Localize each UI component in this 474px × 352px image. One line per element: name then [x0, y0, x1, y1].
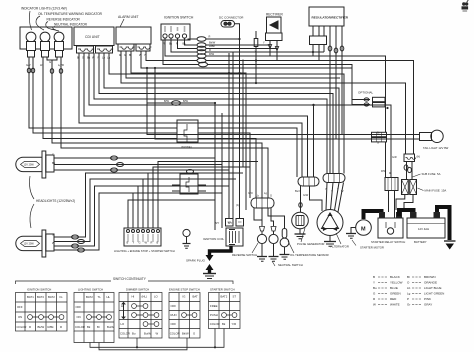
- svg-text:IG: IG: [183, 295, 186, 299]
- tail light feed wires: [147, 68, 420, 139]
- svg-text:OIL TEMPERATURE SENSOR: OIL TEMPERATURE SENSOR: [290, 253, 329, 257]
- svg-text:W: W: [145, 241, 148, 245]
- svg-text:TL: TL: [98, 295, 102, 299]
- svg-text:OFF: OFF: [17, 305, 23, 309]
- svg-text:Lg: Lg: [107, 56, 110, 60]
- svg-text:NEUTRAL INDICATOR: NEUTRAL INDICATOR: [54, 23, 88, 27]
- headlight 1 label: [24, 164, 35, 167]
- svg-text:Lg: Lg: [264, 191, 267, 195]
- CDI unit: [74, 27, 114, 53]
- svg-text:INDICATOR LIGHTS (12V3.4W): INDICATOR LIGHTS (12V3.4W): [21, 7, 67, 11]
- svg-text:OFF: OFF: [171, 304, 177, 308]
- rectifier label: [266, 13, 284, 17]
- svg-text:SWITCH CONTINUITY: SWITCH CONTINUITY: [113, 277, 147, 281]
- svg-text:W: W: [341, 189, 344, 193]
- starter relay switch: [378, 213, 403, 239]
- svg-text:Y: Y: [133, 241, 135, 245]
- svg-text:R: R: [373, 297, 376, 301]
- alarm unit: [116, 27, 151, 51]
- svg-text:DIMMER SWITCH: DIMMER SWITCH: [126, 288, 149, 292]
- svg-text:STARTER SWITCH: STARTER SWITCH: [210, 288, 235, 292]
- fuse connector block: [404, 154, 416, 162]
- regulator rectifier: [309, 7, 344, 45]
- svg-text:REGULATOR/RECTIFIER: REGULATOR/RECTIFIER: [312, 16, 349, 20]
- svg-text:OFF: OFF: [171, 322, 177, 326]
- 4P connector: [251, 198, 274, 208]
- svg-text:R: R: [60, 325, 62, 329]
- svg-text:R: R: [119, 53, 121, 57]
- svg-text:B/Y: B/Y: [215, 221, 219, 225]
- svg-text:Bk/W: Bk/W: [38, 325, 45, 329]
- svg-text:GRAY: GRAY: [424, 303, 432, 307]
- svg-text:BLUE: BLUE: [390, 286, 398, 290]
- condenser: [183, 229, 191, 248]
- oil temperature sensor label: [290, 253, 329, 257]
- svg-text:12V 25W: 12V 25W: [24, 243, 35, 246]
- svg-text:PINK: PINK: [424, 297, 431, 301]
- svg-text:W: W: [373, 303, 376, 307]
- engine stop switch table text: [170, 295, 198, 336]
- svg-text:G/O: G/O: [248, 191, 253, 195]
- oil temperature sensor: [280, 229, 290, 260]
- svg-text:ON: ON: [77, 315, 81, 319]
- svg-text:SUB FUSE 5A: SUB FUSE 5A: [422, 172, 441, 176]
- svg-text:COLOR: COLOR: [120, 332, 130, 336]
- indicator wire bullet connectors: [27, 68, 62, 73]
- pulse generator: [292, 212, 309, 239]
- svg-text:BAT: BAT: [193, 295, 199, 299]
- svg-text:Lb: Lb: [256, 194, 259, 198]
- lighting switch table text: [75, 295, 114, 329]
- svg-text:Y: Y: [97, 56, 99, 60]
- svg-text:IGNITION COIL: IGNITION COIL: [203, 237, 225, 241]
- optional connector label: [358, 91, 374, 95]
- top right connector: [462, 0, 469, 12]
- svg-text:DC CONNECTOR: DC CONNECTOR: [219, 16, 244, 20]
- main fuse leader: [418, 188, 424, 191]
- svg-text:HI: HI: [121, 304, 124, 308]
- battery ground cable: [437, 207, 450, 240]
- svg-text:REVERSE SWITCH: REVERSE SWITCH: [232, 253, 257, 257]
- svg-text:12V 25W: 12V 25W: [24, 164, 35, 167]
- pulse generator leader: [301, 228, 305, 242]
- svg-text:BATTERY: BATTERY: [414, 240, 427, 244]
- svg-text:NEUTRAL SWITCH: NEUTRAL SWITCH: [278, 263, 303, 267]
- svg-text:MAIN FUSE 15A: MAIN FUSE 15A: [425, 189, 447, 193]
- svg-text:FREE: FREE: [210, 304, 218, 308]
- svg-text:Y: Y: [373, 281, 375, 285]
- svg-text:ALARM UNIT: ALARM UNIT: [118, 15, 139, 19]
- svg-text:BAT1: BAT1: [27, 295, 34, 299]
- svg-text:G: G: [373, 292, 376, 296]
- regulator rectifier wires: [313, 44, 344, 174]
- svg-text:GREEN: GREEN: [390, 292, 401, 296]
- svg-text:G/W: G/W: [303, 193, 309, 197]
- svg-text:R/W: R/W: [209, 52, 215, 56]
- starter motor label: [361, 227, 366, 233]
- spark plug cable: [210, 246, 232, 256]
- indicator bulb wires: [29, 57, 268, 198]
- svg-text:G: G: [49, 60, 51, 64]
- tail wire connector blocks: [372, 132, 387, 142]
- svg-text:Lb: Lb: [407, 286, 411, 290]
- headlights label: [36, 199, 75, 203]
- alarm unit label: [118, 15, 139, 19]
- starter motor cable: [364, 211, 382, 219]
- svg-text:LIGHTING + ENGINE STOP + START: LIGHTING + ENGINE STOP + STARTER SWITCH: [114, 249, 175, 253]
- svg-text:Bu/W: Bu/W: [144, 332, 151, 336]
- svg-text:WHITE: WHITE: [390, 303, 400, 307]
- ignition switch label: [164, 16, 194, 20]
- svg-text:G: G: [139, 241, 141, 245]
- fuse out wires: [396, 195, 413, 211]
- headlight 2: [16, 230, 54, 257]
- svg-text:Y: Y: [263, 41, 265, 45]
- svg-text:Bu/W: Bu/W: [107, 325, 114, 329]
- svg-text:RED: RED: [390, 297, 397, 301]
- svg-text:RUN: RUN: [171, 313, 177, 317]
- svg-text:W: W: [92, 56, 95, 60]
- svg-text:B: B: [129, 53, 131, 57]
- fuse connector label: [417, 155, 421, 159]
- DC connector label: [219, 16, 244, 20]
- svg-text:LO: LO: [121, 322, 126, 326]
- svg-text:Bu/Y: Bu/Y: [295, 189, 301, 193]
- ignition switch: [161, 24, 190, 40]
- svg-text:RECTIFIER: RECTIFIER: [266, 13, 284, 17]
- svg-text:HEADLIGHTS (12V25W×2): HEADLIGHTS (12V25W×2): [36, 199, 75, 203]
- engine stop switch table label: [169, 288, 200, 292]
- ignition coil feed connectors: [226, 219, 244, 227]
- svg-text:G: G: [193, 332, 195, 336]
- reverse indicator bulb: [40, 32, 50, 57]
- starter relay switch label: [371, 240, 405, 244]
- headlight 1: [16, 151, 54, 178]
- svg-text:BLACK: BLACK: [390, 275, 400, 279]
- pulse generator label: [297, 242, 324, 246]
- ignition coil label: [203, 237, 225, 241]
- headlight 1 wires: [54, 156, 229, 172]
- neutral indicator bulb: [54, 32, 64, 57]
- svg-text:ENGINE STOP SWITCH: ENGINE STOP SWITCH: [169, 288, 200, 292]
- svg-text:COLOR: COLOR: [210, 322, 220, 326]
- svg-text:Bu: Bu: [52, 161, 56, 165]
- spark plug label: [186, 259, 206, 263]
- pulse generator connector wires: [299, 186, 322, 212]
- color legend dashes: [378, 277, 422, 305]
- svg-text:Br: Br: [407, 275, 410, 279]
- reverse switch label: [232, 253, 257, 257]
- svg-text:Y: Y: [325, 187, 327, 191]
- svg-text:LO: LO: [154, 295, 159, 299]
- dimmer switch table: [119, 293, 162, 339]
- svg-text:SPARK PLUG: SPARK PLUG: [186, 259, 206, 263]
- svg-text:G: G: [270, 194, 272, 198]
- svg-text:Lb: Lb: [40, 63, 44, 67]
- svg-text:IG: IG: [60, 295, 63, 299]
- svg-text:12V 4AH: 12V 4AH: [418, 227, 429, 231]
- svg-text:G/Y: G/Y: [26, 63, 31, 67]
- svg-text:COLOR: COLOR: [75, 325, 85, 329]
- svg-text:Lb: Lb: [102, 56, 105, 60]
- svg-text:Bk: Bk: [169, 42, 173, 46]
- tail light label: [423, 146, 449, 150]
- bullet connector column: [197, 37, 208, 67]
- ignition switch wires to bullet connectors: [163, 38, 199, 64]
- table interconnect wires: [90, 329, 224, 350]
- starter switch table: [209, 293, 241, 329]
- engine stop switch table: [169, 293, 200, 339]
- CDI unit wires: [79, 53, 344, 177]
- svg-text:Gr: Gr: [407, 303, 410, 307]
- resistor component: [254, 31, 258, 83]
- svg-text:G: G: [124, 53, 126, 57]
- neutral switch: [269, 227, 279, 262]
- battery: [407, 213, 445, 239]
- svg-text:YELLOW: YELLOW: [390, 281, 403, 285]
- headlight 2 label: [24, 243, 35, 246]
- alternator: [317, 210, 343, 247]
- svg-text:BAT2: BAT2: [86, 295, 93, 299]
- svg-text:G/R: G/R: [392, 155, 397, 159]
- switch continuity header: [113, 277, 147, 281]
- svg-text:R/Bk: R/Bk: [48, 325, 55, 329]
- svg-text:(A): (A): [236, 203, 240, 207]
- alarm unit wires: [121, 51, 406, 210]
- diode block A label: [181, 145, 192, 149]
- svg-text:COLOR: COLOR: [170, 332, 180, 336]
- svg-text:P: P: [407, 297, 409, 301]
- svg-text:R/W: R/W: [381, 169, 387, 173]
- indicator lights box: [20, 27, 72, 49]
- ignition coil: [226, 228, 243, 246]
- svg-text:G: G: [52, 233, 54, 237]
- handlebar switch label: [114, 249, 175, 253]
- svg-text:HL: HL: [107, 295, 111, 299]
- svg-text:Y/R: Y/R: [232, 322, 237, 326]
- svg-text:BAT3: BAT3: [37, 295, 44, 299]
- alternator leader: [336, 233, 341, 244]
- svg-text:BAT2: BAT2: [221, 295, 228, 299]
- svg-text:O: O: [407, 281, 410, 285]
- svg-text:ALTERNATOR: ALTERNATOR: [331, 245, 349, 249]
- svg-text:Y: Y: [255, 50, 257, 54]
- lighting switch table label: [78, 288, 103, 292]
- svg-text:REVERSE INDICATOR: REVERSE INDICATOR: [47, 18, 81, 22]
- svg-text:W: W: [139, 53, 142, 57]
- svg-text:Y: Y: [331, 189, 333, 193]
- svg-text:R: R: [29, 325, 31, 329]
- svg-text:B: B: [127, 241, 129, 245]
- svg-text:ORANGE: ORANGE: [424, 281, 437, 285]
- svg-text:W: W: [156, 332, 159, 336]
- DC connector: [221, 21, 235, 28]
- regulator rectifier label: [312, 16, 349, 20]
- svg-text:PUSH: PUSH: [210, 313, 218, 317]
- ignition switch table text: [17, 295, 63, 329]
- color legend: [373, 275, 444, 307]
- svg-text:Br: Br: [97, 325, 100, 329]
- reverse switch leader: [252, 243, 258, 253]
- svg-text:LIGHT BLUE: LIGHT BLUE: [424, 286, 441, 290]
- svg-text:B/W: B/W: [164, 99, 169, 103]
- svg-text:(H): (H): [417, 155, 421, 159]
- svg-text:Bk: Bk: [87, 325, 91, 329]
- neutral switch leader: [272, 261, 275, 266]
- starter motor: [346, 220, 371, 239]
- ignition switch table label: [27, 288, 51, 292]
- fuse column label: [392, 155, 397, 159]
- handlebar switch connector strip: [124, 228, 161, 246]
- headlight 2 wires: [54, 173, 148, 252]
- svg-text:Y: Y: [337, 187, 339, 191]
- svg-text:OFF: OFF: [76, 305, 82, 309]
- svg-text:B: B: [157, 241, 159, 245]
- indicator label leaders: [29, 11, 59, 31]
- svg-text:Bu: Bu: [132, 332, 136, 336]
- main fuse: [410, 180, 417, 195]
- optional connectors: [352, 97, 385, 107]
- spark plug: [203, 264, 216, 279]
- alternator label: [331, 245, 349, 249]
- svg-text:BAT2: BAT2: [48, 295, 55, 299]
- alternator connector wires: [326, 183, 344, 213]
- starter motor leader: [352, 240, 356, 246]
- fuse feed wires: [404, 162, 412, 180]
- reverse switch: [257, 227, 267, 262]
- svg-text:CDI UNIT: CDI UNIT: [85, 35, 100, 39]
- spark plug cable arrowhead: [206, 255, 214, 261]
- sub fuse: [402, 180, 409, 195]
- diode block A: [177, 120, 198, 142]
- ignition switch table: [16, 293, 68, 332]
- svg-text:R/Bk: R/Bk: [209, 44, 215, 48]
- svg-text:B: B: [77, 56, 79, 60]
- svg-text:ST: ST: [233, 295, 237, 299]
- neutral switch label: [278, 263, 303, 267]
- battery ground: [444, 241, 456, 250]
- svg-text:R: R: [176, 42, 178, 46]
- dimmer switch table label: [126, 288, 149, 292]
- svg-text:Lg: Lg: [407, 292, 411, 296]
- handlebar switch riser wires: [128, 162, 258, 229]
- svg-text:B: B: [373, 275, 375, 279]
- alarm unit leader: [120, 19, 124, 27]
- relay connector feed wires: [314, 105, 392, 178]
- svg-text:ON: ON: [18, 315, 22, 319]
- pulse generator connector: [298, 177, 319, 186]
- dimmer switch table text: [120, 295, 159, 336]
- svg-text:COLOR: COLOR: [17, 325, 27, 329]
- svg-text:G: G: [52, 153, 54, 157]
- sub fuse leader: [413, 174, 421, 177]
- CDI unit label: [85, 35, 100, 39]
- starter switch table label: [210, 288, 235, 292]
- main fuse label: [425, 189, 447, 193]
- connector block B: [172, 170, 206, 195]
- svg-text:R: R: [209, 35, 211, 39]
- svg-text:STARTER MOTOR: STARTER MOTOR: [360, 246, 384, 250]
- svg-text:Bk/W: Bk/W: [182, 332, 189, 336]
- starter switch table text: [210, 295, 237, 327]
- crossing verticals from connector column: [215, 24, 250, 230]
- rectifier: [266, 17, 283, 41]
- svg-text:OIL TEMPERATURE WARNING INDICA: OIL TEMPERATURE WARNING INDICATOR: [38, 12, 103, 16]
- svg-text:Bk: Bk: [222, 322, 226, 326]
- headlights label leaders: [30, 176, 35, 228]
- svg-text:STARTER RELAY SWITCH: STARTER RELAY SWITCH: [371, 240, 405, 244]
- svg-text:(DIODE): (DIODE): [181, 145, 192, 149]
- relay connector block: [385, 142, 398, 218]
- svg-text:Lg/R: Lg/R: [58, 63, 64, 67]
- oil temperature sensor leader: [288, 241, 294, 253]
- svg-text:TAIL LIGHT 12V 8W: TAIL LIGHT 12V 8W: [423, 146, 449, 150]
- svg-text:B/W: B/W: [183, 99, 188, 103]
- relay to battery cable: [399, 210, 414, 216]
- svg-text:B/Y: B/Y: [228, 221, 232, 225]
- svg-text:(HL): (HL): [142, 295, 148, 299]
- svg-text:G: G: [82, 56, 84, 60]
- svg-text:R: R: [151, 241, 153, 245]
- svg-text:R: R: [163, 42, 165, 46]
- sub fuse label: [422, 172, 441, 176]
- battery label: [414, 227, 429, 244]
- svg-text:LIGHTING SWITCH: LIGHTING SWITCH: [78, 288, 103, 292]
- svg-text:IGNITION SWITCH: IGNITION SWITCH: [164, 16, 194, 20]
- rectifier wires: [268, 41, 279, 61]
- svg-text:LIGHT GREEN: LIGHT GREEN: [424, 292, 444, 296]
- svg-text:PULSE GENERATOR: PULSE GENERATOR: [297, 242, 324, 246]
- svg-text:Bu: Bu: [373, 286, 377, 290]
- loop wire with bullet above diode block: [147, 101, 215, 105]
- svg-text:Y: Y: [144, 53, 146, 57]
- svg-text:M: M: [361, 227, 366, 233]
- switch continuity bracket: [16, 281, 234, 284]
- svg-text:OPTIONAL: OPTIONAL: [358, 91, 374, 95]
- tail light: [420, 130, 444, 142]
- svg-text:R: R: [389, 171, 391, 175]
- svg-text:R: R: [209, 48, 211, 52]
- wires from bullet connectors: [206, 39, 414, 154]
- svg-text:Br: Br: [377, 131, 380, 135]
- indicator wire color labels: [26, 60, 64, 67]
- alternator connector: [323, 174, 345, 183]
- svg-text:HI: HI: [132, 295, 135, 299]
- indicator lights labels: [21, 7, 103, 27]
- wire color code labels: [52, 35, 391, 246]
- oil temp warning indicator bulb: [26, 32, 36, 57]
- svg-text:BROWN: BROWN: [424, 275, 436, 279]
- lighting switch table: [74, 293, 114, 343]
- svg-text:G: G: [377, 141, 379, 145]
- svg-text:IGNITION SWITCH: IGNITION SWITCH: [27, 288, 51, 292]
- 4P connector lower wires: [254, 208, 285, 229]
- svg-text:Bu: Bu: [87, 56, 91, 60]
- diode block A outgoing wires: [198, 128, 297, 198]
- svg-text:Bk/W: Bk/W: [209, 41, 216, 45]
